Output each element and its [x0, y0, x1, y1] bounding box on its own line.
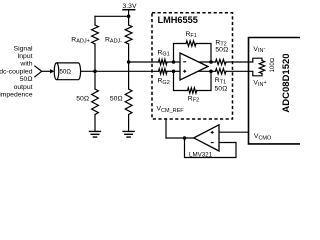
resistor 100ohm ADC termination — [259, 61, 264, 74]
wire RADJ+ bottom to node A and 50ohm top — [94, 44, 96, 89]
node dot upper output/RF1 — [209, 60, 213, 64]
node A dot coax/RADJ+/50ohm — [93, 70, 97, 74]
wire op-amp lower output — [199, 70, 216, 72]
resistor RADJ- — [125, 25, 132, 44]
svg-text:LMV321: LMV321 — [189, 152, 213, 159]
wire RF1 feedback loop right — [196, 44, 211, 63]
wire RADJ- top stub — [128, 16, 130, 25]
svg-text:100Ω: 100Ω — [270, 57, 276, 72]
wire LMV321 - input feedback — [185, 138, 237, 158]
resistor 50ohm left — [92, 89, 99, 115]
wire RG2 to op-amp — [167, 70, 181, 72]
svg-text:with: with — [19, 61, 32, 68]
op-amp U1 LMH6555 amplifier triangle — [180, 53, 208, 80]
svg-text:50Ω: 50Ω — [215, 46, 228, 53]
wire node B to RG1 — [129, 61, 159, 63]
resistor 50ohm right — [125, 89, 132, 115]
ground right — [123, 131, 134, 137]
chevron signal source — [34, 66, 41, 78]
wire RADJ- bottom through node B to 50ohm right — [128, 44, 130, 89]
wire supply rail — [95, 15, 129, 17]
resistor RG2 — [159, 69, 168, 74]
resistor RT2 — [216, 59, 227, 64]
svg-text:50Ω: 50Ω — [20, 76, 33, 83]
resistor RF1 — [186, 41, 196, 46]
svg-text:50Ω: 50Ω — [110, 96, 123, 103]
op-amp U2 minus sign — [211, 142, 214, 144]
node dot lower output/RF2 — [209, 70, 213, 74]
svg-text:impedence: impedence — [0, 92, 33, 99]
svg-text:output: output — [14, 84, 33, 91]
node dot 3.3V rail junction — [127, 14, 131, 18]
svg-text:LMH6555: LMH6555 — [158, 15, 198, 25]
coax cable left ellipse — [54, 63, 59, 80]
ground left — [90, 131, 101, 137]
resistor RADJ+ — [92, 25, 99, 44]
wire 50ohm right to ground — [128, 115, 130, 132]
svg-text:50Ω: 50Ω — [59, 69, 71, 76]
wire RF1 feedback loop left — [174, 44, 187, 63]
wire op-amp upper output — [199, 61, 216, 63]
wire input to arrowhead — [43, 70, 51, 72]
ADC box ADC08D1520 — [249, 38, 301, 144]
wire RF2 feedback loop left — [174, 71, 188, 90]
wire ADC VIN- pin stub — [249, 58, 263, 62]
op-amp U2 plus sign — [211, 131, 214, 134]
resistor RF2 — [188, 88, 197, 93]
wire coax out to node A to RG2 — [80, 70, 158, 72]
wire RT2 to ADC VIN- — [226, 61, 249, 63]
dashed box LMH6555 — [152, 13, 233, 119]
svg-text:ADC08D1520: ADC08D1520 — [281, 53, 292, 112]
svg-text:50Ω: 50Ω — [76, 96, 89, 103]
wire RT1 to ADC VIN+ — [226, 70, 249, 72]
svg-text:Input: Input — [17, 53, 32, 60]
node dot RG2/RF2 — [172, 70, 176, 74]
node dot LMV321 output — [183, 136, 187, 140]
wire VCMO to LMV321 + input — [219, 131, 249, 133]
arrowhead into coax — [50, 69, 54, 73]
wire 50ohm left to ground — [94, 115, 96, 132]
wire RG1 to op-amp — [167, 61, 181, 63]
svg-text:Signal: Signal — [14, 45, 33, 52]
wire VCM_REF pin — [165, 119, 167, 138]
svg-text:50Ω: 50Ω — [215, 85, 228, 92]
op-amp U1 minus sign — [183, 61, 186, 63]
resistor RT1 — [216, 69, 227, 74]
op-amp U2 LMV321 triangle — [194, 125, 219, 151]
node B dot RADJ-/50ohm — [127, 60, 131, 64]
wire 3.3V drop — [128, 10, 130, 17]
svg-text:dc-coupled: dc-coupled — [0, 68, 33, 75]
wire RF2 feedback loop right — [197, 71, 211, 90]
wire ADC VIN+ pin stub — [249, 71, 263, 76]
coax cable body 50ohm source — [57, 63, 81, 80]
3.3V supply bar — [123, 9, 135, 11]
resistor RG1 — [159, 59, 168, 64]
svg-text:3.3V: 3.3V — [123, 3, 137, 10]
node dot RG1/RF1 — [172, 60, 176, 64]
wire RADJ+ top stub — [94, 16, 96, 25]
wire LMV321 output to VCM_REF — [166, 137, 194, 139]
op-amp U1 plus sign — [183, 70, 186, 73]
